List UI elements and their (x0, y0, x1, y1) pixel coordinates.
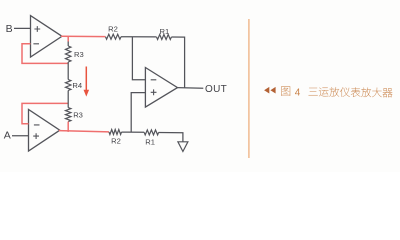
wire U1 output (red) (61, 35, 106, 37)
wire junction T2 to U3 non-inverting input (131, 93, 145, 133)
svg-text:R3: R3 (74, 50, 84, 59)
divider line (248, 19, 250, 158)
wire column top stub (67, 42, 69, 47)
svg-text:A: A (4, 129, 11, 141)
ground (178, 142, 188, 152)
svg-text:R2: R2 (108, 25, 118, 34)
wire R3-R4 (67, 62, 69, 80)
op-amp U1 (31, 16, 63, 57)
resistor R2 top (106, 34, 122, 39)
op-amp U2 (29, 109, 60, 151)
resistor R3 bottom (66, 108, 71, 122)
svg-text:OUT: OUT (205, 84, 227, 95)
current arrow (red) (84, 67, 90, 97)
wire OUT (178, 87, 204, 90)
wire column top stub (red) (67, 37, 69, 42)
wire R4-R3 (67, 91, 69, 108)
resistor R3 top (66, 46, 71, 62)
wire B input (14, 27, 31, 29)
svg-text:R2: R2 (111, 136, 121, 145)
wire bottom rail (122, 131, 145, 133)
svg-text:B: B (6, 23, 13, 35)
caption arrows (264, 87, 276, 94)
wire junction T1 to U3 inverting input (132, 37, 145, 80)
svg-text:R4: R4 (72, 81, 82, 90)
wire U2 output (red) (59, 131, 109, 132)
wire A input (12, 135, 29, 137)
wire column bottom stub (red) (67, 122, 69, 132)
resistor R4 (66, 80, 71, 91)
caption text 三运放仪表放大器 (309, 88, 318, 96)
svg-text:R1: R1 (160, 27, 170, 36)
wire R1 to ground (159, 133, 183, 142)
resistor R1 bottom (144, 130, 158, 135)
resistor R1 top (157, 35, 172, 40)
wire top rail (121, 36, 157, 38)
wire R1 to feedback corner (171, 37, 184, 88)
op-amp U3 (145, 68, 177, 108)
wire U2 feedback (red) (22, 103, 68, 123)
caption text 图 4 (281, 86, 290, 95)
svg-text:R1: R1 (145, 137, 155, 146)
svg-text:R3: R3 (73, 110, 83, 119)
resistor R2 bottom (109, 130, 122, 135)
svg-text:4: 4 (295, 87, 301, 98)
wire U1 feedback (red) (22, 44, 68, 64)
